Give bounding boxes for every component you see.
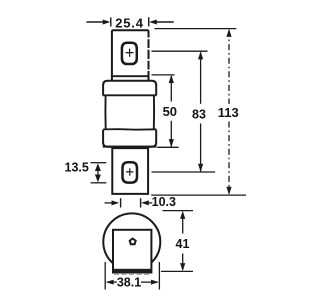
- top slot cross: [126, 49, 134, 57]
- bottom blade tag: [112, 147, 148, 194]
- svg-text:113: 113: [218, 105, 239, 120]
- top end cap: [103, 81, 156, 95]
- bottom cap bottom line: [103, 146, 157, 148]
- dim 10.3: [105, 198, 153, 207]
- bottom slot cross: [126, 168, 133, 176]
- dim 25.4: [87, 17, 174, 26]
- bottom end cap: [103, 130, 156, 147]
- svg-text:83: 83: [192, 107, 206, 121]
- top cap bottom line: [103, 94, 157, 96]
- top tag right edge gaps (dashed scan look): [147, 38, 150, 72]
- dim 83: [152, 51, 216, 172]
- dim 50: [152, 75, 179, 147]
- faint line under blade band: [114, 273, 152, 275]
- svg-text:38.1: 38.1: [117, 275, 141, 289]
- blade rect bottom dark band: [114, 269, 151, 273]
- dim 38.1: [105, 262, 159, 290]
- ceramic body right edge: [153, 95, 155, 129]
- svg-text:50: 50: [163, 104, 177, 119]
- small pentagon marker: [130, 239, 136, 245]
- svg-text:10.3: 10.3: [152, 195, 176, 209]
- end view circle: [103, 213, 160, 270]
- body / bottom cap junction: [103, 128, 156, 131]
- svg-text:25.4: 25.4: [115, 15, 144, 30]
- ceramic body left edge: [104, 95, 106, 129]
- top tag bottom edge: [112, 75, 149, 77]
- dim 13.5: [91, 163, 107, 183]
- top slot: [122, 43, 137, 64]
- svg-text:13.5: 13.5: [65, 161, 89, 175]
- dim 113: [151, 29, 246, 196]
- svg-text:41: 41: [176, 237, 190, 251]
- dim 41: [161, 211, 193, 272]
- end view blade rect: [113, 230, 151, 273]
- bottom tag top shading: [112, 147, 148, 149]
- top blade tag: [112, 30, 149, 80]
- bottom slot: [123, 162, 138, 182]
